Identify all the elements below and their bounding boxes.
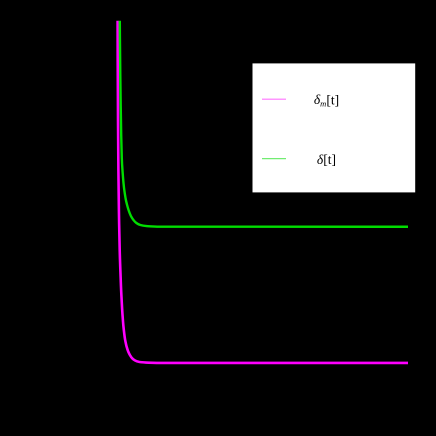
legend swatch magenta: [262, 98, 286, 100]
svg-text:δ[t]: δ[t]: [317, 152, 336, 167]
legend swatch green: [262, 158, 286, 160]
legend box: [253, 63, 416, 192]
curve delta_m[t] magenta: [118, 21, 408, 363]
svg-text:δm[t]: δm[t]: [314, 92, 339, 108]
curve delta[t] green: [120, 21, 408, 227]
